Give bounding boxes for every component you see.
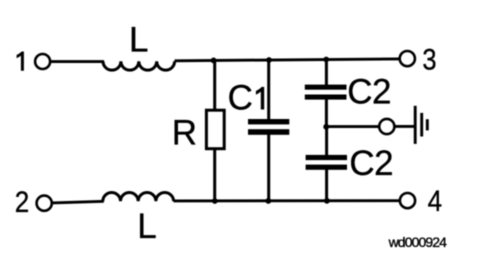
terminal 1 [35, 54, 50, 69]
inductor L1 top [103, 61, 175, 70]
wire middle node to ground terminal [326, 125, 379, 128]
wire C1 branch lower [267, 134, 270, 202]
ground symbol bar 3 [426, 119, 429, 130]
capacitor C2 bottom plate 2 [306, 165, 347, 170]
wire top rail to terminal 3 [175, 59, 400, 61]
wire terminal 1 to top inductor [50, 60, 104, 63]
wire C1 branch upper [267, 60, 270, 121]
svg-text:L: L [129, 20, 148, 59]
wire bottom rail to terminal 4 [174, 199, 400, 202]
svg-text:C2: C2 [347, 72, 391, 111]
inductor L2 bottom [103, 192, 174, 201]
capacitor C2 bottom plate 1 [306, 155, 347, 160]
node junction top C2 [323, 57, 329, 63]
ground symbol bar 2 [420, 113, 423, 137]
wire middle node to C2 bottom [325, 126, 328, 156]
svg-text:3: 3 [422, 42, 436, 75]
svg-text:R: R [172, 113, 197, 152]
svg-text:C: C [228, 78, 253, 117]
wire R branch upper [213, 60, 216, 111]
ground terminal circle [379, 119, 394, 134]
terminal 2 [37, 196, 52, 211]
label 1 [17, 52, 24, 71]
wire ground terminal to ground symbol [394, 125, 414, 128]
wire C2 top branch upper [325, 59, 328, 86]
node junction bottom C1 [265, 198, 271, 204]
wire R branch lower [213, 149, 216, 202]
terminal 3 [400, 51, 415, 66]
terminal 4 [400, 193, 415, 208]
svg-text:L: L [137, 207, 156, 246]
capacitor C2 top plate 2 [305, 95, 347, 100]
node junction bottom C2 [324, 198, 330, 204]
wire C2 bottom to bottom rail [325, 169, 328, 201]
svg-text:wd000924: wd000924 [388, 234, 448, 250]
capacitor C1 plate 1 [248, 119, 289, 124]
capacitor C1 plate 2 [248, 129, 289, 135]
svg-text:2: 2 [15, 186, 30, 219]
resistor R [206, 110, 224, 149]
node junction top R [211, 58, 217, 64]
node middle junction [323, 124, 329, 130]
node junction bottom R [212, 198, 218, 204]
svg-text:4: 4 [428, 184, 443, 217]
wire C2 top to middle node [325, 99, 328, 128]
ground symbol bar 1 [414, 106, 417, 144]
node junction top C1 [266, 57, 272, 63]
wire terminal 2 to bottom inductor [52, 201, 104, 203]
svg-text:C2: C2 [349, 144, 393, 183]
capacitor C2 top plate 1 [305, 85, 347, 90]
